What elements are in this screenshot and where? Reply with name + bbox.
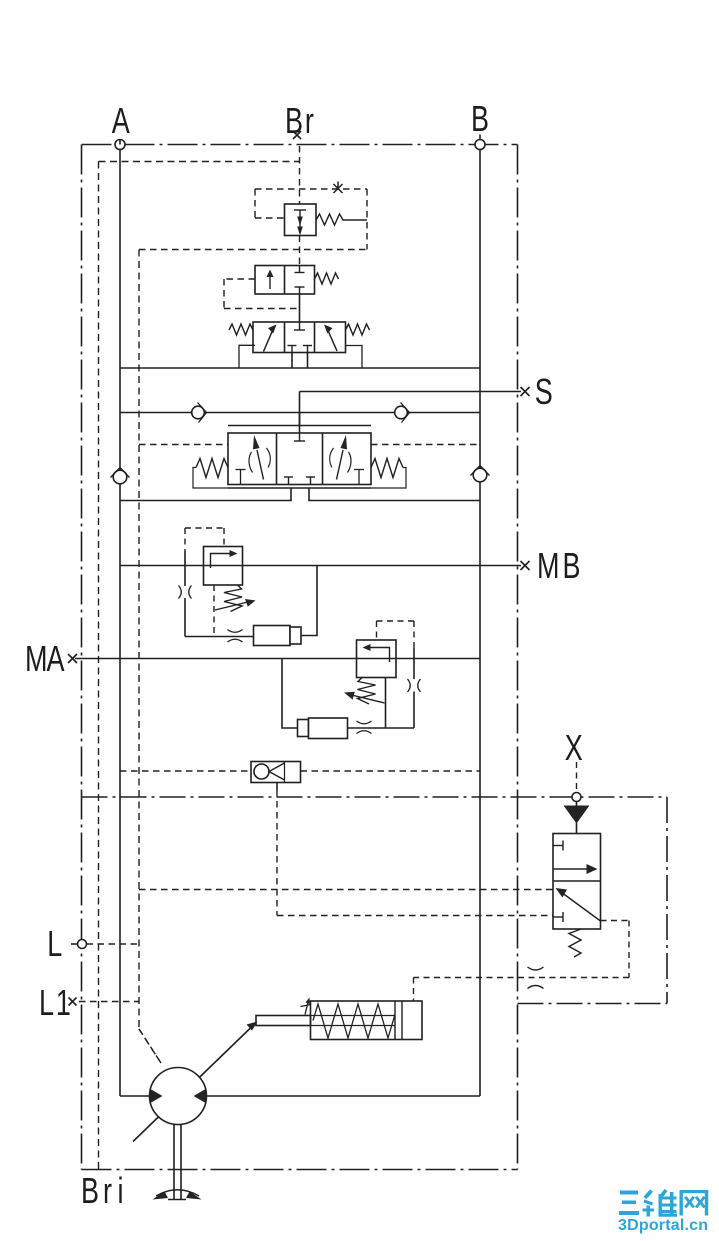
wire S corner to V4 [299, 413, 301, 434]
wire Br pilot line (dashed) [299, 146, 301, 266]
wire pilot dashed y890 [139, 889, 553, 891]
wire RV2 vent [385, 678, 387, 729]
RV1 internal arrow [211, 554, 233, 569]
wire gauge line y412 [120, 412, 480, 414]
wire AB rail y368 [120, 367, 480, 369]
valve V1 internals (double down arrows + T) [294, 210, 306, 233]
M1 rotation arrows [156, 1190, 199, 1196]
check valve CVb on gauge line [395, 406, 408, 419]
servo piston [394, 1001, 396, 1040]
wire X dashed [576, 762, 578, 793]
wire L dashed [87, 943, 140, 945]
svg-text:L1: L1 [39, 982, 73, 1023]
valve V2 body (2 position) [255, 266, 315, 295]
wire V2 to V3 [299, 294, 301, 322]
wire P1 to MB line [301, 566, 317, 636]
wire check valve pilot dashed right [301, 770, 480, 772]
orifice on RV2 drain [357, 721, 372, 734]
valve V3 left box arrow [264, 331, 273, 352]
stroke arrow to rod [133, 1028, 251, 1142]
wire A vertical line [119, 150, 121, 1097]
valve V1 body [285, 204, 317, 236]
wire MB line [120, 565, 521, 567]
relief valve RV2 body [357, 640, 397, 678]
spring right of V4 [371, 459, 403, 478]
valve V2 left box arrow [269, 273, 271, 289]
servo cylinder body [311, 1001, 423, 1040]
svg-text:B: B [471, 98, 491, 139]
V2 pilot dashed box [224, 279, 299, 309]
node A port circle [115, 140, 125, 150]
wire pilot dashed into pump [139, 1029, 161, 1063]
spring below V7 [569, 929, 581, 957]
wire check valve pilot dashed left [120, 770, 251, 772]
svg-text:Bri: Bri [81, 1170, 125, 1211]
relief valve RV1 dashed box [185, 528, 224, 551]
wire L1 dashed [79, 1001, 139, 1003]
valve V3 center box T ports [288, 322, 313, 353]
V3 left bracket [239, 345, 255, 367]
wire MA line [75, 658, 480, 660]
main spool valve V4 body [228, 433, 371, 485]
relief valve RV2 dashed box [377, 621, 415, 648]
pump/motor M1 circle [150, 1068, 207, 1125]
wire RV1 left branch with orifice [184, 551, 186, 586]
node B port circle [475, 140, 485, 150]
V7 bottom position internals [563, 894, 601, 922]
check valve CVA on A line [113, 470, 127, 484]
wire A to pump [120, 1095, 149, 1097]
node X port circle [572, 793, 581, 802]
check valve CVa on gauge line [192, 406, 205, 419]
V7 top position internals [553, 841, 592, 870]
svg-text:X: X [565, 727, 585, 768]
V3 right bracket [346, 346, 363, 369]
node S plug mark [521, 387, 530, 396]
V4 center box internals [284, 433, 315, 485]
pilot reducing valve V1 dashed enclosure [139, 189, 367, 250]
valve V2 right box blocked ports [295, 266, 305, 295]
inner pilot boundary 1 (dashed) [99, 162, 301, 1170]
M1 left flow triangle [150, 1089, 163, 1104]
wire chain box right [518, 797, 668, 1004]
node MA plug mark [68, 654, 77, 663]
pilot valve V7 body [553, 834, 601, 930]
RV2 spring with adjustment arrow [358, 678, 376, 705]
pilot dashed line y445 left [139, 444, 228, 446]
wire RV2 right branch with orifice [413, 648, 415, 679]
svg-text:A: A [112, 100, 132, 141]
svg-text:MA: MA [25, 638, 66, 679]
M1 right flow triangle [194, 1089, 207, 1104]
orifice on feedback line [528, 967, 544, 989]
servo cylinder spring [313, 1004, 395, 1038]
RV1 spring with adjustment arrow [224, 585, 242, 612]
node L1 plug mark [69, 998, 77, 1006]
V4 left box internals [257, 450, 264, 480]
pilot supply triangle [564, 806, 590, 824]
wire V7 pilot feedback dashed [414, 921, 630, 1002]
wire V3 bottom left port to AB rail [291, 353, 293, 369]
svg-text:MB: MB [537, 545, 583, 586]
node L port circle [78, 940, 87, 949]
valve V3 body (3 position) [253, 322, 346, 353]
RV2 internal arrow [368, 648, 390, 663]
plug mark x on V1 enclosure [334, 182, 343, 194]
spring of V1 [316, 214, 367, 225]
orifice on RV1 drain [228, 630, 243, 643]
spring left of V4 [196, 459, 228, 478]
svg-text:3Dportal.cn: 3Dportal.cn [618, 1217, 708, 1234]
wire B to pump [206, 1095, 480, 1097]
watermark 三维网 [619, 1189, 708, 1217]
wire CV1 drain to pilot valve [276, 783, 278, 791]
check valve CV1 [251, 762, 301, 783]
node MB plug mark [521, 561, 530, 570]
rod vent mark [301, 1001, 311, 1015]
wire V3 bottom right port to AB rail [307, 353, 309, 369]
manifold outline (chain border) [82, 145, 518, 1170]
servo cylinder rod [256, 1016, 311, 1026]
svg-text:Br: Br [285, 100, 316, 141]
inner pilot boundary 2 (dashed) [139, 250, 161, 1064]
wire P2 to MA line [282, 659, 298, 729]
spring right of V3 [346, 324, 370, 335]
compensator piston P1 [254, 626, 291, 646]
spring of V2 [315, 273, 339, 284]
spring left of V3 [229, 324, 253, 335]
wire RV1 vent dashed [213, 585, 215, 637]
node Br plug mark [293, 131, 301, 139]
svg-text:S: S [535, 371, 555, 412]
wire subplate chain line y797 [82, 796, 668, 798]
valve V3 right box arrow [328, 331, 337, 352]
wire B vertical line [479, 150, 481, 1097]
wire S line [300, 391, 522, 393]
wire V4 bottom ports [120, 488, 291, 501]
V4 right box internals [337, 450, 344, 480]
main spool valve V4 top rail [228, 425, 371, 427]
main valve V4 bottom rail [228, 487, 371, 489]
relief valve RV1 body [204, 547, 243, 586]
svg-text:L: L [47, 923, 64, 964]
M1 shaft [173, 1125, 175, 1200]
pilot dashed line y445 right [371, 444, 480, 446]
compensator piston P2 [298, 720, 309, 737]
check valve CVB on B line [473, 468, 487, 482]
